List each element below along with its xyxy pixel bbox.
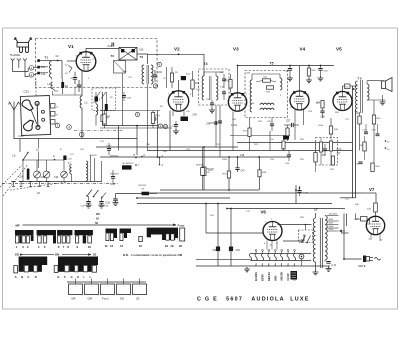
svg-text:V5: V5 [336,47,342,52]
svg-text:M2 MZR329: M2 MZR329 [123,163,135,165]
T7 primary winding with taps [325,216,327,261]
svg-text:19: 19 [170,244,174,248]
circle-dot junction symbol [299,254,304,259]
wire taps to terminal 2 [18,63,20,68]
capacitor C14 [112,43,114,47]
switch row1 group2 blocks [37,230,56,235]
wire x166.5 vertical [166,67,168,88]
svg-text:180V: 180V [329,219,334,221]
capacitor C54 [287,155,291,157]
svg-text:C14: C14 [19,175,24,178]
ground C41 [326,267,332,272]
svg-text:V2: V2 [174,47,180,52]
vertical wire x157.5 [157,111,159,158]
dashed gang link from CS1 [35,79,37,96]
wire T5 vertical down [269,131,271,151]
switch row1 contact 16 [139,236,143,241]
wire HT to V7 [362,192,376,194]
capacitor C36 [122,96,126,98]
switch row1 contact 20 [180,228,185,241]
svg-text:6M5: 6M5 [273,275,277,281]
T5 lower winding [260,103,274,105]
svg-text:C49: C49 [206,123,211,125]
T1 return wire [61,61,63,80]
svg-text:C19: C19 [158,71,163,74]
resistor R48 [361,217,368,222]
switch row1 group3 blocks [57,230,72,235]
resistor R19 [229,80,232,89]
bottom rail y266 [196,265,330,267]
wire x118.5 vertical [118,126,120,151]
capacitor C17 [73,78,77,80]
ground bottom rail [244,267,250,272]
resistor R7Bb [258,170,261,177]
svg-text:C61b: C61b [318,125,324,127]
bus wire y147 [96,146,238,148]
wire V3 cathode down [232,112,234,151]
keyboard tab rail [67,281,146,283]
capacitor C26 dark [63,156,66,161]
bus wire y157 [100,156,290,158]
svg-text:T4: T4 [204,62,208,66]
svg-text:MF: MF [16,223,20,227]
gang dash-dot horizontal [2,182,119,184]
wire V5 anode to choke [342,86,344,92]
svg-text:Fono: Fono [178,223,185,227]
svg-text:RETE: RETE [359,264,366,268]
tube V4 AF preamp [290,91,309,110]
svg-text:C33: C33 [106,202,111,205]
svg-text:C5B: C5B [250,103,255,105]
resistor R45 [372,115,375,124]
ground T7 secondary [313,270,319,275]
svg-text:C68: C68 [322,155,327,157]
svg-text:R19: R19 [225,81,230,83]
inner dashed screen box [92,88,116,110]
capacitor C64 [318,69,322,71]
capacitor C45 [210,103,214,105]
svg-text:C48: C48 [240,155,245,157]
svg-text:Fono: Fono [102,297,109,301]
switch wafer terminals 5 8 7 [135,157,137,159]
T7 tap wires and voltage labels [327,215,339,217]
bus wire y193 [147,192,362,194]
T4 secondary winding [216,76,218,100]
heater line y259 [196,259,251,261]
resistor R36 [319,142,322,152]
ground T6 [380,100,386,105]
switch row1 group1 blocks [15,230,34,235]
bus junction dots [157,156,159,158]
svg-text:C: C [27,275,29,279]
coil L2 [80,96,82,108]
svg-text:75÷300Ω: 75÷300Ω [10,53,21,57]
resistor R43 [371,163,374,172]
node 9 10 (circled) [158,124,162,128]
svg-text:C14: C14 [108,45,113,48]
pot M2 box [122,165,132,169]
svg-text:ECH81: ECH81 [254,272,258,281]
gang dash-dot link [74,130,124,132]
resistor R16 [191,80,194,89]
output transformer T6 secondary [367,84,369,100]
svg-text:20: 20 [179,244,183,248]
dark part C6 [95,97,99,102]
T7 core [319,218,321,268]
terminal node 1 (circled) [29,66,34,71]
svg-text:C16: C16 [139,49,144,52]
svg-text:EBC81: EBC81 [267,272,271,281]
svg-text:MZR320: MZR320 [196,164,205,166]
svg-text:V7: V7 [369,187,375,192]
T6 core [360,80,362,113]
wire rail y135.5 [230,135,290,137]
svg-text:12: 12 [105,244,109,248]
svg-text:C53: C53 [236,250,241,252]
stage bottom rail y95 [52,94,82,96]
vertical wire x137 [136,139,138,156]
svg-text:A: A [53,154,55,158]
input coil T1 winding [50,61,52,78]
svg-text:2M: 2M [96,212,100,216]
capacitor C29 to ground [86,202,90,204]
antenna tap Y3 [24,61,26,64]
svg-text:R12b: R12b [222,159,228,161]
node 4 (circled) [67,125,72,130]
heater socket strip rails [251,253,312,255]
trimmer C20 [43,171,50,178]
svg-text:CS1: CS1 [24,90,30,94]
resistor R28 [321,101,324,109]
V7 heater wires [370,234,372,240]
antenna socket prongs [20,47,29,53]
wire T3 return vertical [147,84,149,151]
wire V2 cathode parts [172,111,174,117]
switch row2 group1 blocks [14,266,18,273]
trimmer C16 [34,171,41,178]
svg-text:16: 16 [139,244,143,248]
resistor R3 [101,115,104,122]
resistor R35 [314,153,317,163]
svg-text:25: 25 [93,252,97,256]
resistor R7B [202,167,206,176]
dots top bus [289,65,291,67]
ground rail y181.5 [20,181,102,183]
coil L8 column [86,161,88,181]
switch row1 group6 block 14 [120,229,132,234]
svg-text:MZR329: MZR329 [139,185,148,187]
mains plug [363,256,366,263]
output transformer T6 primary [356,81,358,112]
svg-text:G: G [71,275,73,279]
switch row1 group4 blocks [75,230,93,235]
switch chart SO-ON line [21,254,23,256]
svg-text:ON: ON [55,252,60,256]
svg-text:C47: C47 [241,170,246,172]
svg-text:160V: 160V [329,223,334,225]
svg-text:T2: T2 [111,54,115,58]
trimmer bend C5 [69,66,73,73]
tuning capacitor unit CS1 box [20,95,50,135]
wire R6 to bus [149,193,157,195]
wire T5 internals [252,73,280,75]
svg-text:R7B: R7B [262,172,267,174]
svg-text:T1: T1 [45,56,49,60]
resistor R1 [61,82,64,88]
resistor R42 [363,142,366,151]
resistor R18 [227,171,230,178]
wire R3 to rail y125.6 [102,122,104,126]
tap selector arrow [340,230,346,232]
svg-text:V4: V4 [300,47,306,52]
svg-text:110-240V: 110-240V [329,214,338,216]
capacitor C53 [229,247,233,252]
svg-text:C12: C12 [41,73,46,76]
svg-text:MΩR329: MΩR329 [206,169,215,171]
svg-text:C 78: C 78 [303,193,308,195]
ground R33 [306,78,312,83]
switch contacts mid [96,92,101,99]
wire V1 anode to T2 [86,49,119,52]
IF transformer T3 [142,65,144,84]
wire V2 anode up [178,80,180,91]
antenna socket bar [17,43,29,48]
dark component SWB [181,117,189,122]
mains switch box on pot [299,230,313,243]
svg-text:DWG: DWG [300,240,305,242]
wires right verticals [90,155,92,182]
svg-text:E: E [58,275,60,279]
CS1 terminal squares [51,104,56,109]
wire T4 verticals down [219,105,221,157]
capacitor C46 [218,121,222,123]
wire top feed y54.3 [148,53,205,55]
capacitor C71 box [345,84,351,89]
wire trimmer feed rail [23,159,64,161]
bus wire y142.5 [237,142,353,144]
tube V3 detector [228,93,246,111]
svg-text:R14: R14 [156,116,161,118]
IF transformer T5 dashed can [245,71,288,118]
capacitor C31 to ground [99,202,103,204]
capacitor C63 [288,69,292,71]
resistor R37 [331,156,334,165]
tube V7 rectifier [366,216,384,234]
T5 winding B [280,78,282,90]
capacitor C75 [358,162,362,164]
svg-text:17: 17 [314,208,318,212]
svg-text:MZR32G: MZR32G [110,173,119,175]
svg-text:50: 50 [95,221,99,225]
svg-text:C57: C57 [286,121,291,123]
svg-text:C28·55: C28·55 [90,155,98,157]
capacitor C73 [364,132,368,134]
node 6 (circled) [157,62,161,66]
heater loops [255,254,257,261]
svg-text:EF89: EF89 [261,274,265,281]
svg-text:V3: V3 [233,47,239,52]
svg-text:140V: 140V [329,226,334,228]
antenna tap Y2 [18,61,20,64]
svg-text:C10: C10 [19,134,24,138]
resistor R33 [307,68,310,76]
ground T4 [209,108,215,113]
tube V1 converter [76,52,96,72]
bus wire y203.5 [137,203,332,205]
resistor R13 [103,114,106,124]
capacitor C62 box [267,86,274,89]
resistor R8 [170,73,173,82]
wire V3 top [237,66,239,93]
svg-text:C40: C40 [193,114,198,116]
tube V6 rectifier-output [263,222,282,241]
svg-text:F: F [64,275,66,279]
filter choke vertical pair [352,86,354,198]
svg-text:14: 14 [120,244,124,248]
vertical wire x170 [169,111,171,151]
dashed tuner enclosure [36,39,158,88]
resistor R6 (pot) box [142,192,150,196]
bus wire y198 [137,197,231,199]
node 3 (circled) [55,123,60,128]
resistor R14 [151,113,154,124]
capacitor C18 [77,85,81,87]
T4 primary winding [202,76,204,100]
svg-text:SO: SO [15,252,20,256]
svg-text:MF: MF [72,297,76,301]
capacitor C74 [376,134,380,136]
ground C33 [113,201,119,206]
trimmer C22 [61,171,68,178]
switch arrows right [87,190,92,197]
svg-text:C11: C11 [41,66,46,69]
keyboard tabs [69,284,83,295]
resistor R17 [248,128,251,137]
core terminal dots [37,59,40,62]
capacitor C41 [326,262,330,264]
svg-text:2S: 2S [136,297,140,301]
wire switch to transformer [305,225,307,231]
svg-text:D: D [35,275,37,279]
svg-text:C22: C22 [54,176,59,179]
coil set L6 grounds [11,181,15,183]
wire taps to terminal 1 [13,63,29,72]
resistor R2 dark [105,104,108,111]
terminal S2 [385,140,387,142]
svg-text:10: 10 [88,245,92,249]
ground C64 [318,76,324,81]
svg-text:R16: R16 [195,83,200,85]
bus wire top y65.5 [238,65,335,67]
mains vertical feed pair [343,214,345,260]
T7 secondary winding [313,218,315,262]
svg-text:C52: C52 [213,250,218,252]
svg-text:MZR: MZR [337,150,342,152]
wire mains to plug [344,258,362,260]
resistor R38 [329,141,332,151]
IF transformer T4 dashed can [199,69,230,105]
ground C63 [287,76,293,81]
svg-text:L: L [90,275,92,279]
ferrite antenna [13,110,15,139]
capacitor C38 [174,125,178,127]
resistor R21 [263,79,271,82]
wire V6 grid from left [206,232,263,234]
switch row1 group7 big block [147,228,178,233]
node 9b (circled) [135,112,139,116]
svg-text:OM: OM [88,297,93,301]
wire T4 links [204,71,224,73]
dashed resistor pack MZR307 [316,138,338,166]
svg-text:H: H [77,275,79,279]
svg-text:C32: C32 [111,183,116,186]
T5 winding A [250,80,252,112]
resistor R22 [282,141,285,149]
svg-text:C2-90: C2-90 [286,273,290,281]
fuse tick [341,232,349,234]
bus wire y208.5 [227,208,345,210]
node 5 (circled) [79,132,84,137]
svg-text:14 19: 14 19 [231,125,237,127]
svg-text:18: 18 [165,244,169,248]
tube V6 pin wires [266,241,268,250]
wire L2 to bus [81,108,83,139]
capacitor C78 top [297,191,301,193]
ground C38 [173,129,179,134]
tube V2 IF amplifier [168,91,188,111]
resistor R44 [374,203,378,212]
svg-text:C 41: C 41 [332,265,338,267]
switch row2 group2 blocks [54,266,58,273]
wire R48 to V7 [355,214,357,220]
capacitor C52 [216,247,220,252]
svg-text:T 6: T 6 [358,76,362,80]
antenna tap Y1 [12,61,14,64]
svg-text:T5: T5 [270,62,274,66]
wire x296 vertical [295,185,297,204]
resistor network MZR329 R19b [201,168,205,176]
wire V4 anode up [299,66,301,92]
dark part SCM [283,136,289,140]
resistor R26 [286,128,289,136]
svg-text:T3: T3 [140,55,144,59]
antenna plug hooks [14,38,32,43]
wire V4 below [294,110,296,140]
svg-text:ABC80: ABC80 [280,271,284,280]
bus wire y150.5 [147,150,353,152]
wire stage rail y110.5 [100,110,160,112]
svg-text:C G E 5607 AUDIOLA LUXE: C G E 5607 AUDIOLA LUXE [197,297,310,303]
svg-text:A: A [15,275,17,279]
svg-text:C66: C66 [321,116,326,118]
svg-text:125V: 125V [329,229,334,231]
wire V1 grid from T1 [67,60,76,62]
component M1 dark block [291,271,298,280]
switch contact left of C33 [102,193,106,198]
wire T6 top/bottom [367,80,384,82]
dashed mechanical links [3,164,28,196]
svg-text:N.B. I commutatori sono in po: N.B. I commutatori sono in posizione OM [123,253,183,257]
junction dot T6 [353,88,355,90]
switch row1 group5 blocks 12 13 [106,229,118,234]
node 7 (circled) [153,84,157,88]
svg-text:10: 10 [164,125,168,129]
svg-text:V6: V6 [261,210,267,215]
switch chart MF line [23,224,177,226]
resistor R15 dark [181,76,186,80]
wire choke feed [340,197,356,199]
resistor R46 [358,116,361,124]
